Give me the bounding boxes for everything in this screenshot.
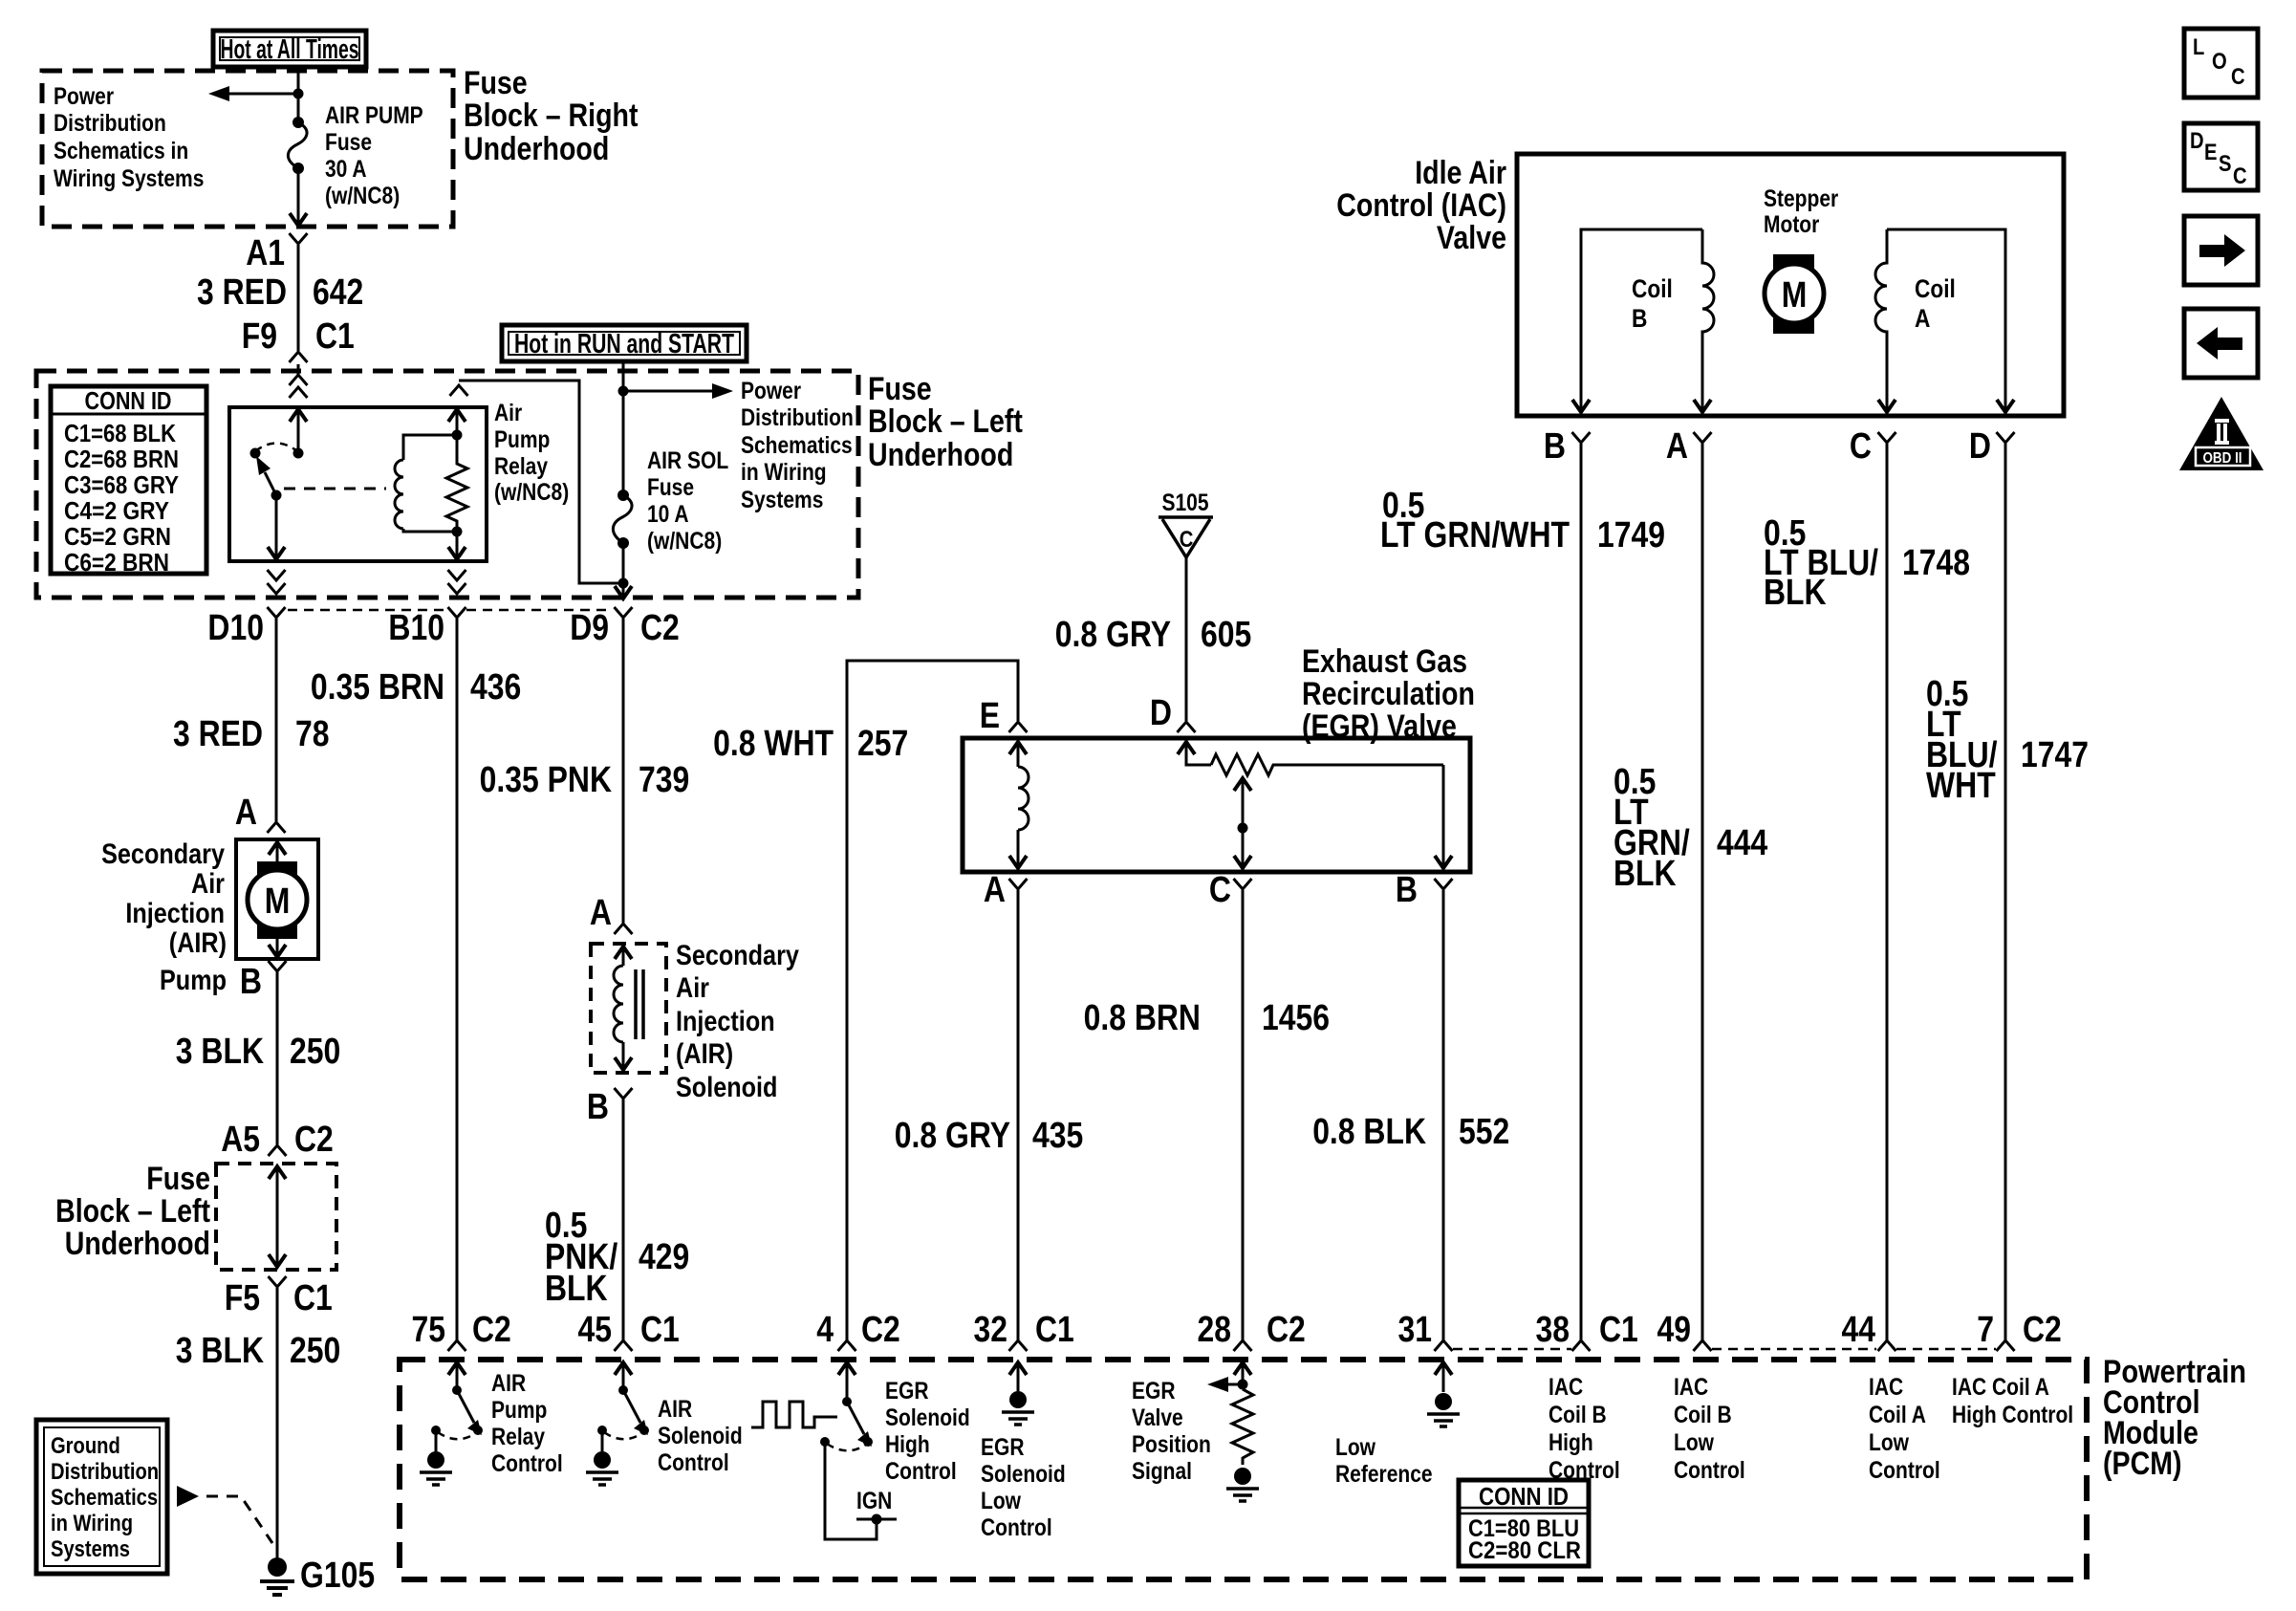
- connector mark pin 7: [1997, 1340, 2015, 1351]
- svg-text:Low: Low: [1335, 1434, 1375, 1461]
- svg-text:C2=68 BRN: C2=68 BRN: [64, 445, 179, 473]
- svg-text:F9: F9: [242, 316, 277, 357]
- svg-text:Fuse: Fuse: [868, 371, 932, 407]
- svg-text:A5: A5: [221, 1120, 260, 1160]
- svg-text:Power: Power: [54, 83, 114, 110]
- wire: EGR B to PCM pin 31 (0.8 BLK 552): [1442, 890, 1445, 1340]
- svg-text:250: 250: [290, 1331, 340, 1371]
- label: wire 3 RED 642: [197, 272, 363, 313]
- connector mark D (EGR): [1178, 722, 1196, 732]
- svg-text:Relay: Relay: [491, 1424, 545, 1450]
- svg-text:B: B: [240, 962, 262, 1002]
- svg-text:L: L: [2193, 34, 2204, 60]
- label: wire 0.5 LT BLU/WHT 1747: [1926, 674, 2089, 806]
- svg-text:C1=68 BLK: C1=68 BLK: [64, 419, 176, 447]
- svg-text:7: 7: [1977, 1310, 1994, 1350]
- svg-text:Solenoid: Solenoid: [981, 1461, 1066, 1488]
- svg-text:B: B: [1632, 304, 1647, 333]
- connector mark B10: [448, 607, 466, 618]
- wire: S105 to EGR pin D (0.8 GRY 605): [1185, 557, 1188, 721]
- svg-text:IAC: IAC: [1869, 1374, 1903, 1401]
- svg-text:Solenoid: Solenoid: [676, 1072, 777, 1103]
- svg-text:C2: C2: [861, 1310, 900, 1350]
- pointer from ground note: [177, 1486, 272, 1543]
- svg-text:Underhood: Underhood: [65, 1226, 210, 1262]
- label: Air Pump Relay (w/NC8): [494, 400, 569, 506]
- label: IAC Coil B High Control (pin 38): [1549, 1374, 1620, 1484]
- ground G105: [260, 1557, 294, 1595]
- wire: D10 to AIR pump (3 RED 78): [275, 619, 278, 821]
- svg-text:Hot at All Times: Hot at All Times: [221, 34, 359, 65]
- svg-text:M: M: [1782, 275, 1808, 316]
- dashed box: Fuse Block - Left Underhood (big): [36, 371, 858, 598]
- svg-text:1747: 1747: [2021, 735, 2089, 775]
- svg-text:Hot in RUN and START: Hot in RUN and START: [514, 329, 734, 359]
- svg-text:0.8 GRY: 0.8 GRY: [895, 1116, 1010, 1156]
- wire: F5 to ground G105 (3 BLK 250): [276, 1288, 279, 1558]
- svg-text:B10: B10: [388, 608, 444, 648]
- svg-text:E: E: [2204, 140, 2218, 165]
- wire: solenoid B down to PCM pin 45: [622, 1099, 625, 1340]
- svg-text:Control: Control: [491, 1450, 563, 1477]
- connector mark pin 31: [1435, 1340, 1453, 1351]
- svg-text:Block – Right: Block – Right: [464, 98, 639, 134]
- icon: DESC box: [2184, 123, 2258, 190]
- label: Low Reference: [1335, 1434, 1433, 1488]
- connector mark A (pump): [268, 822, 286, 833]
- svg-text:Power: Power: [741, 378, 801, 404]
- svg-text:C: C: [1209, 870, 1231, 910]
- svg-text:High Control: High Control: [1952, 1402, 2073, 1428]
- EGR sensor output (pin B side): [1435, 765, 1452, 868]
- connector mark pin 32: [1009, 1340, 1028, 1351]
- svg-text:IAC: IAC: [1674, 1374, 1708, 1401]
- svg-text:Relay: Relay: [494, 453, 548, 480]
- svg-text:Distribution: Distribution: [741, 404, 854, 431]
- label: EGR Solenoid Low Control: [981, 1434, 1066, 1541]
- svg-text:Ground: Ground: [51, 1433, 120, 1459]
- svg-text:Distribution: Distribution: [51, 1459, 159, 1485]
- svg-text:C4=2 GRY: C4=2 GRY: [64, 496, 169, 525]
- connector mark pin 45: [615, 1340, 633, 1351]
- svg-text:C2: C2: [472, 1310, 511, 1350]
- svg-text:C2=80 CLR: C2=80 CLR: [1468, 1537, 1581, 1564]
- svg-text:Recirculation: Recirculation: [1302, 676, 1475, 712]
- svg-text:(w/NC8): (w/NC8): [494, 479, 569, 506]
- svg-text:D: D: [2190, 128, 2204, 154]
- module box: Powertrain Control Module (PCM): [400, 1360, 2087, 1579]
- svg-text:IAC: IAC: [1549, 1374, 1583, 1401]
- svg-text:C: C: [2233, 163, 2247, 189]
- svg-text:Coil A: Coil A: [1869, 1402, 1926, 1428]
- svg-text:G105: G105: [300, 1556, 375, 1596]
- label: AIR PUMP Fuse 30 A (w/NC8): [325, 102, 423, 209]
- label: pin 4 / C2: [816, 1310, 900, 1350]
- svg-text:C1: C1: [315, 316, 355, 357]
- solenoid L1: Secondary Air Injection (AIR) Solenoid: [591, 944, 666, 1073]
- square wave symbol: [751, 1402, 837, 1427]
- svg-text:EGR: EGR: [981, 1434, 1025, 1461]
- icon: LOC box: [2184, 29, 2258, 98]
- IAC coil B: [1572, 229, 1714, 412]
- svg-text:C: C: [1850, 426, 1872, 467]
- relay coil (inductor): [395, 430, 463, 533]
- svg-text:(AIR): (AIR): [169, 927, 227, 959]
- PCM driver: AIR Solenoid Control (pin 45): [586, 1362, 649, 1485]
- wire: IAC A to PCM pin 49 (0.5 LT GRN/BLK 444): [1701, 444, 1704, 1340]
- label: wire 0.8 GRY 605: [1055, 615, 1252, 655]
- svg-text:A: A: [984, 870, 1006, 910]
- connector mark C (EGR): [1234, 879, 1252, 889]
- svg-text:in Wiring: in Wiring: [51, 1511, 133, 1536]
- thin dashed connector line (PCM C1 group): [1453, 1348, 1571, 1351]
- title: Fuse Block - Left Underhood (small): [55, 1161, 210, 1262]
- svg-text:D: D: [1969, 426, 1991, 467]
- svg-text:AIR SOL: AIR SOL: [647, 447, 728, 474]
- svg-text:3 RED: 3 RED: [173, 714, 263, 754]
- wire: IAC B to PCM pin 38 (0.5 LT GRN/WHT 1749): [1580, 444, 1583, 1340]
- relay coil feed from AIR SOL fuse branch: [448, 381, 623, 583]
- fuse F2: AIR SOL Fuse 10 A: [613, 490, 632, 549]
- svg-text:BLK: BLK: [1614, 854, 1677, 894]
- svg-text:Signal: Signal: [1132, 1458, 1192, 1485]
- svg-text:Underhood: Underhood: [868, 437, 1013, 473]
- icon: right arrow box: [2184, 216, 2258, 285]
- svg-text:C2: C2: [640, 608, 680, 648]
- title: Powertrain Control Module (PCM): [2103, 1354, 2246, 1482]
- svg-text:C: C: [1180, 527, 1194, 553]
- EGR sensor wiper (pin C): [1234, 778, 1251, 868]
- stepper motor M2: [1764, 185, 1838, 334]
- svg-text:A: A: [1666, 426, 1688, 467]
- wire: AIR SOL fuse output to edge: [615, 543, 632, 599]
- svg-text:D9: D9: [570, 608, 609, 648]
- svg-text:AIR: AIR: [658, 1396, 692, 1423]
- svg-text:605: 605: [1201, 615, 1251, 655]
- svg-text:Reference: Reference: [1335, 1461, 1433, 1488]
- svg-text:Pump: Pump: [491, 1397, 547, 1424]
- wire: arrow to power distribution (left): [208, 86, 304, 101]
- wire: PCM pin 4 up and over to EGR pin E (0.8 WHT 257): [847, 661, 1018, 1340]
- connector mark pin 38: [1572, 1340, 1591, 1351]
- connector mark A (solenoid): [615, 924, 633, 934]
- svg-text:CONN ID: CONN ID: [1479, 1482, 1569, 1511]
- svg-text:Fuse: Fuse: [146, 1161, 210, 1197]
- svg-text:Low: Low: [981, 1488, 1021, 1514]
- connector mark below fuse block (terminal A1): [290, 233, 308, 244]
- svg-text:Coil: Coil: [1632, 274, 1673, 303]
- note: Power Distribution Schematics in Wiring Systems (right): [741, 378, 854, 513]
- title: Idle Air Control (IAC) Valve: [1336, 155, 1506, 256]
- connector marks below relay (coil side): [448, 570, 466, 594]
- connector mark B (pump): [269, 961, 287, 971]
- svg-text:AIR PUMP: AIR PUMP: [325, 102, 423, 129]
- table: CONN ID (PCM): [1459, 1480, 1589, 1566]
- label: pin 38 / C1: [1536, 1310, 1638, 1350]
- label: wire 0.8 BRN 1456: [1084, 998, 1330, 1038]
- motor M1: Secondary Air Injection (AIR) Pump: [236, 839, 318, 959]
- EGR solenoid coil (pin E to A): [1009, 742, 1029, 868]
- svg-text:Low: Low: [1674, 1429, 1714, 1456]
- svg-text:AIR: AIR: [491, 1370, 526, 1397]
- svg-text:38: 38: [1536, 1310, 1570, 1350]
- connector mark C (IAC): [1878, 432, 1896, 443]
- svg-text:Control: Control: [1869, 1457, 1940, 1484]
- svg-text:BLK: BLK: [1764, 573, 1827, 613]
- svg-text:Valve: Valve: [1437, 220, 1506, 256]
- title: Fuse Block - Right Underhood: [464, 65, 639, 167]
- label: AIR SOL Fuse 10 A (w/NC8): [647, 447, 728, 555]
- svg-text:C1: C1: [293, 1278, 333, 1318]
- connector marks below relay (switch side): [268, 570, 286, 594]
- label: Coil B: [1632, 274, 1673, 333]
- connector mark B (EGR): [1435, 879, 1453, 889]
- svg-text:Idle Air: Idle Air: [1415, 155, 1506, 191]
- IGN connection: [825, 1442, 897, 1539]
- label: wire 0.5 LT GRN/WHT 1749: [1380, 486, 1665, 555]
- svg-text:in Wiring: in Wiring: [741, 459, 827, 486]
- title: Fuse Block - Left Underhood: [868, 371, 1023, 473]
- svg-text:Fuse: Fuse: [464, 65, 528, 101]
- valve box: EGR valve: [963, 738, 1470, 872]
- label: wire 0.8 GRY 435: [895, 1116, 1084, 1156]
- label: AIR Pump Relay Control: [491, 1370, 563, 1477]
- svg-text:Pump: Pump: [160, 965, 227, 996]
- svg-text:78: 78: [295, 714, 330, 754]
- svg-text:Low: Low: [1869, 1429, 1909, 1456]
- svg-text:WHT: WHT: [1926, 766, 1996, 806]
- svg-text:Fuse: Fuse: [647, 474, 694, 501]
- label: IAC Coil B Low Control (pin 49): [1674, 1374, 1745, 1484]
- note: Power Distribution Schematics in Wiring Systems (top left): [54, 83, 204, 192]
- svg-text:High: High: [885, 1431, 930, 1458]
- svg-text:Solenoid: Solenoid: [658, 1423, 743, 1449]
- thin dashed connector line (PCM C2 group): [1712, 1348, 1996, 1351]
- svg-text:C1: C1: [1599, 1310, 1638, 1350]
- svg-text:75: 75: [412, 1310, 446, 1350]
- relay switch output wire: [268, 495, 285, 559]
- svg-text:D10: D10: [207, 608, 264, 648]
- svg-text:High: High: [1549, 1429, 1593, 1456]
- svg-text:CONN ID: CONN ID: [85, 386, 172, 415]
- svg-text:552: 552: [1459, 1112, 1509, 1152]
- label: pin 28 / C2: [1198, 1310, 1306, 1350]
- svg-text:M: M: [265, 882, 291, 922]
- dashed box: Fuse Block - Right Underhood: [42, 71, 453, 227]
- svg-text:0.8 GRY: 0.8 GRY: [1055, 615, 1171, 655]
- label: terminals D9 / C2: [570, 608, 680, 648]
- label: terminals A5 / C2: [221, 1120, 334, 1160]
- label: Coil A: [1915, 274, 1956, 333]
- svg-text:D: D: [1150, 693, 1172, 733]
- wire through small fuse block: [269, 1166, 286, 1267]
- svg-text:10 A: 10 A: [647, 501, 689, 528]
- svg-text:Schematics: Schematics: [741, 432, 853, 459]
- svg-text:Schematics: Schematics: [51, 1485, 158, 1511]
- svg-text:1456: 1456: [1262, 998, 1330, 1038]
- svg-text:B: B: [587, 1087, 609, 1127]
- svg-text:O: O: [2212, 49, 2227, 75]
- label: terminals F9 / C1: [242, 316, 355, 357]
- svg-text:Control: Control: [981, 1514, 1052, 1541]
- label: wire 3 RED 78: [173, 714, 330, 754]
- svg-text:C1: C1: [1035, 1310, 1074, 1350]
- svg-text:BLK: BLK: [545, 1269, 608, 1309]
- svg-text:0.35 PNK: 0.35 PNK: [480, 760, 613, 800]
- svg-text:Control: Control: [885, 1458, 957, 1485]
- label: terminals F5 / C1: [225, 1278, 333, 1318]
- svg-text:F5: F5: [225, 1278, 260, 1318]
- svg-text:Control: Control: [658, 1449, 729, 1476]
- label box: Hot at All Times: [213, 31, 366, 67]
- svg-text:Underhood: Underhood: [464, 131, 609, 167]
- svg-text:Control: Control: [1674, 1457, 1745, 1484]
- svg-text:A: A: [590, 893, 612, 933]
- connector mark pin 49: [1694, 1340, 1712, 1351]
- title: Exhaust Gas Recirculation (EGR) Valve: [1302, 643, 1475, 745]
- svg-text:Systems: Systems: [51, 1536, 130, 1562]
- connector mark pin 75: [448, 1340, 466, 1351]
- wire: Hot in RUN into fuse block: [618, 361, 629, 495]
- svg-text:Secondary: Secondary: [101, 838, 225, 870]
- relay switch feed wire: [290, 409, 307, 459]
- EGR position sensor feed (pin D): [1178, 742, 1211, 765]
- label: wire 0.8 BLK 552: [1312, 1112, 1509, 1152]
- label: IAC Coil A Low Control (pin 44): [1869, 1374, 1940, 1484]
- connector marks into relay (double chevron): [290, 375, 308, 398]
- label: EGR Solenoid High Control: [885, 1378, 970, 1485]
- svg-text:(PCM): (PCM): [2103, 1446, 2182, 1482]
- label: wire 0.5 LT BLU/BLK 1748: [1764, 513, 1970, 613]
- svg-text:Schematics in: Schematics in: [54, 138, 188, 164]
- label: wire 0.35 BRN 436: [311, 667, 521, 708]
- svg-text:250: 250: [290, 1032, 340, 1072]
- svg-text:C3=68 GRY: C3=68 GRY: [64, 470, 179, 499]
- svg-text:Secondary: Secondary: [676, 940, 799, 971]
- svg-text:45: 45: [578, 1310, 613, 1350]
- svg-text:C2: C2: [1267, 1310, 1306, 1350]
- wire: IAC C to PCM pin 44 (0.5 LT BLU/BLK 1748): [1886, 444, 1889, 1340]
- svg-text:A: A: [235, 793, 257, 833]
- thin dashed connector line (C2/C1 row): [288, 609, 613, 612]
- svg-text:Air: Air: [676, 972, 709, 1004]
- connector mark A (EGR): [1009, 879, 1028, 889]
- note box: Ground Distribution Schematics in Wiring Systems: [36, 1420, 167, 1574]
- relay coil resistor: [446, 435, 467, 537]
- wire: from Hot at All Times into fuse block: [297, 67, 300, 120]
- relay switch arm: [250, 448, 282, 501]
- wire: into fuse block left: [297, 364, 300, 375]
- svg-text:S: S: [2219, 151, 2232, 177]
- svg-text:429: 429: [639, 1237, 689, 1277]
- wire: A1 to F9: [297, 245, 300, 351]
- wire: pump B down to fuse block left (3 BLK 250): [276, 972, 279, 1144]
- wire: fuse output down to block edge: [290, 168, 307, 226]
- svg-text:Systems: Systems: [741, 487, 823, 513]
- label: pin 45 / C1: [578, 1310, 680, 1350]
- connector mark A (IAC): [1694, 432, 1712, 443]
- svg-text:1749: 1749: [1597, 515, 1665, 555]
- label: pin 7 / C2: [1977, 1310, 2062, 1350]
- svg-text:Injection: Injection: [676, 1006, 775, 1037]
- wire: B10 down to PCM pin 75: [456, 619, 459, 1340]
- svg-text:A1: A1: [246, 233, 285, 273]
- svg-text:Stepper: Stepper: [1764, 185, 1838, 212]
- splice S105: [1159, 490, 1213, 557]
- svg-text:IGN: IGN: [856, 1488, 892, 1514]
- svg-text:31: 31: [1398, 1310, 1433, 1350]
- svg-text:32: 32: [974, 1310, 1008, 1350]
- svg-text:257: 257: [857, 724, 908, 764]
- label: pin 32 / C1: [974, 1310, 1074, 1350]
- svg-text:Solenoid: Solenoid: [885, 1404, 970, 1431]
- connector mark B (solenoid): [615, 1088, 633, 1099]
- connector mark pin 4: [838, 1340, 856, 1351]
- svg-text:C2: C2: [294, 1120, 334, 1160]
- svg-text:C: C: [2231, 64, 2245, 90]
- svg-text:Air: Air: [494, 400, 522, 426]
- svg-text:EGR: EGR: [1132, 1378, 1176, 1404]
- label: IAC Coil A High Control (pin 7): [1952, 1374, 2073, 1428]
- svg-text:Wiring Systems: Wiring Systems: [54, 165, 204, 192]
- svg-text:B: B: [1396, 870, 1418, 910]
- svg-text:4: 4: [816, 1310, 834, 1350]
- svg-text:C2: C2: [2023, 1310, 2062, 1350]
- svg-text:30 A: 30 A: [325, 156, 367, 183]
- label: wire 0.5 PNK/BLK 429: [545, 1206, 689, 1309]
- svg-text:642: 642: [313, 272, 363, 313]
- connector mark pin 44: [1878, 1340, 1896, 1351]
- svg-text:Control (IAC): Control (IAC): [1336, 187, 1506, 224]
- svg-text:3 RED: 3 RED: [197, 272, 287, 313]
- svg-text:444: 444: [1717, 823, 1767, 863]
- label: wire 3 BLK 250 (lower): [176, 1331, 341, 1371]
- svg-text:C5=2 GRN: C5=2 GRN: [64, 522, 171, 551]
- wire: arrow to power distribution (right): [623, 383, 733, 399]
- svg-text:Coil B: Coil B: [1674, 1402, 1732, 1428]
- label box: Hot in RUN and START: [502, 325, 747, 361]
- connector mark pin 28: [1234, 1340, 1252, 1351]
- valve box: IAC valve: [1517, 154, 2064, 416]
- svg-text:28: 28: [1198, 1310, 1232, 1350]
- connector mark D10: [268, 607, 286, 618]
- svg-text:0.8 BRN: 0.8 BRN: [1084, 998, 1201, 1038]
- svg-text:3 BLK: 3 BLK: [176, 1331, 265, 1371]
- relay switch dashed arc: [255, 444, 297, 452]
- svg-text:Motor: Motor: [1764, 211, 1820, 238]
- svg-text:1748: 1748: [1902, 543, 1970, 583]
- connector mark F5/C1: [269, 1276, 287, 1287]
- connector mark F9/C1: [290, 352, 308, 362]
- svg-text:Exhaust Gas: Exhaust Gas: [1302, 643, 1467, 680]
- svg-text:EGR: EGR: [885, 1378, 929, 1404]
- label: wire 0.8 WHT 257: [713, 724, 908, 764]
- PCM driver: EGR Solenoid High Control (pin 4): [820, 1362, 873, 1450]
- svg-text:435: 435: [1032, 1116, 1083, 1156]
- IAC coil A: [1875, 229, 2014, 412]
- svg-text:C1: C1: [640, 1310, 680, 1350]
- PCM: EGR Solenoid Low Control ground (pin 32): [1002, 1362, 1034, 1425]
- svg-text:IAC Coil A: IAC Coil A: [1952, 1374, 2049, 1401]
- svg-text:A: A: [1915, 304, 1930, 333]
- svg-text:0.8 BLK: 0.8 BLK: [1312, 1112, 1426, 1152]
- fuse F1: AIR PUMP Fuse 30 A: [288, 117, 307, 174]
- svg-text:Fuse: Fuse: [325, 129, 372, 156]
- wire: D9 down to AIR solenoid: [622, 619, 625, 923]
- svg-text:Coil B: Coil B: [1549, 1402, 1607, 1428]
- svg-text:Air: Air: [191, 868, 225, 900]
- label: wire 0.5 LT GRN/BLK 444: [1614, 762, 1767, 894]
